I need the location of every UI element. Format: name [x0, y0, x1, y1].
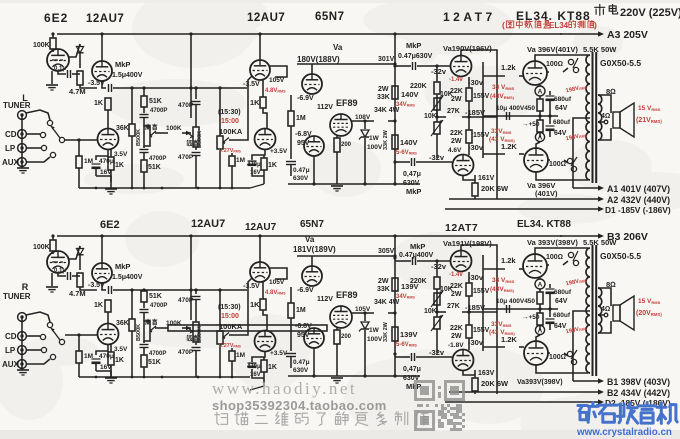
wire R B+ bus [57, 235, 562, 237]
diode L 6E2 grid [76, 47, 83, 53]
svg-text:A: A [538, 89, 543, 96]
svg-text:1K: 1K [250, 300, 260, 309]
ground R 12AU7b cathode [96, 371, 111, 377]
svg-text:8Ω: 8Ω [606, 280, 616, 289]
resistor R EL34a cathode [539, 289, 541, 292]
jack R AUX [18, 360, 27, 369]
svg-text:680uf: 680uf [554, 96, 572, 103]
svg-text:A1 401V (407V): A1 401V (407V) [607, 184, 670, 194]
tube R EF89 pentode [330, 306, 352, 328]
svg-text:1M: 1M [296, 115, 306, 122]
resistor R 100K [52, 236, 54, 240]
label L 198Vrms red upper [565, 84, 588, 94]
svg-text:0.27VRMS: 0.27VRMS [219, 148, 242, 154]
svg-text:12AT7: 12AT7 [445, 222, 478, 234]
wire L lower plate to transformer [536, 172, 588, 180]
svg-text:-30v: -30v [468, 78, 484, 87]
svg-text:EL34: EL34 [549, 21, 569, 30]
svg-text:3.5V: 3.5V [114, 346, 128, 353]
wire L tone input bus [142, 86, 145, 89]
tube L 6SN7 triode b [304, 136, 324, 156]
svg-text:105V: 105V [355, 306, 371, 313]
svg-text:EL34. KT88: EL34. KT88 [517, 219, 571, 230]
svg-text:4.8VRMS: 4.8VRMS [265, 290, 286, 296]
svg-text:-32v: -32v [431, 262, 447, 271]
ammeter R lower [535, 325, 544, 334]
svg-text:-3.5V: -3.5V [243, 81, 260, 88]
svg-text:65N7: 65N7 [315, 11, 345, 23]
wire L cathode bus upper [483, 115, 558, 117]
wire R jack AUX to contact [27, 359, 50, 364]
resistor R 100K tone bridge [155, 327, 168, 329]
wire R grid junction to 1M [78, 335, 80, 351]
svg-text:22K: 22K [450, 130, 463, 137]
svg-text:-30v: -30v [468, 338, 484, 347]
wire L 12AU7b plate [107, 110, 109, 129]
ammeter L upper [539, 85, 541, 86]
jack R CD [18, 332, 27, 341]
svg-text:0.47μ: 0.47μ [293, 167, 310, 174]
svg-text:34VRMS: 34VRMS [396, 102, 415, 108]
svg-text:(21VRMS): (21VRMS) [636, 117, 662, 124]
svg-text:10K: 10K [424, 113, 437, 120]
svg-text:1M: 1M [296, 307, 306, 314]
svg-text:(43VRMS): (43VRMS) [490, 93, 515, 100]
potentiometer L bass B500K [193, 127, 199, 147]
svg-text:301V: 301V [378, 56, 395, 63]
svg-text:12AU7: 12AU7 [245, 222, 277, 233]
resistor R 34K4W [373, 310, 375, 316]
tube L 12AU7-2 triode a [250, 60, 270, 80]
svg-text:1K: 1K [250, 98, 260, 107]
svg-text:-32v: -32v [431, 67, 447, 76]
svg-text:155V: 155V [473, 93, 490, 100]
svg-text:www.haodiy.net: www.haodiy.net [212, 379, 357, 398]
wire L 12AU7-2 plates join [263, 108, 267, 129]
tube R EL34 upper [523, 254, 547, 278]
tube R 12AT7 triode a [451, 251, 472, 272]
wire R ground rail [79, 376, 250, 378]
svg-text:105V: 105V [269, 279, 285, 286]
svg-text:A: A [538, 328, 543, 335]
svg-text:-30v: -30v [468, 143, 484, 152]
svg-text:www.crystalradio.cn: www.crystalradio.cn [576, 427, 672, 438]
capacitor L MkP 1.5u400V coupling [102, 81, 106, 88]
svg-text:630V: 630V [293, 175, 309, 182]
ground rail R mid [250, 386, 264, 390]
watermark scan qr text [215, 412, 228, 425]
svg-text:1K: 1K [268, 162, 277, 169]
svg-text:5-6VRMS: 5-6VRMS [396, 342, 417, 348]
wire R secondary 8 ohm [598, 288, 611, 306]
wire L jack TUNER to contact [26, 110, 50, 120]
output line L 1 [573, 187, 602, 189]
resistor L EL34a cathode [539, 96, 541, 99]
resistor R 1K 12AU7a cathode [105, 300, 111, 312]
tube L 6E2 magic eye [47, 49, 69, 71]
svg-text:33 VRMS: 33 VRMS [492, 84, 515, 91]
wire R to volume pot [218, 288, 221, 291]
wire R 12AU7-2 plate supply [259, 236, 261, 262]
potentiometer R treble B500K [144, 321, 150, 341]
svg-text:155V: 155V [473, 327, 490, 334]
svg-text:33K 2W: 33K 2W [383, 321, 389, 342]
svg-text:LP: LP [5, 346, 16, 355]
svg-text:220V (225V): 220V (225V) [620, 7, 680, 19]
resistor L 51K treble bottom [141, 160, 147, 172]
svg-text:MkP: MkP [115, 262, 130, 271]
wire R 6E2 plate to diode [69, 246, 80, 259]
switch L UL lower [567, 158, 572, 163]
wire R EF89 plate [352, 312, 374, 314]
tube L 12AU7-2 triode b [255, 129, 276, 150]
svg-text:B500K: B500K [136, 129, 142, 146]
wire L to volume pot [218, 86, 221, 89]
svg-text:AUX: AUX [2, 158, 20, 167]
svg-text:51K: 51K [149, 293, 162, 300]
svg-text:470P: 470P [178, 154, 194, 161]
wire L secondary 8 ohm [598, 95, 611, 113]
wire R 12AU7a plate supply [101, 236, 103, 263]
svg-text:155V: 155V [473, 132, 490, 139]
wire R bias feed column [482, 255, 484, 351]
tube R 12AU7-2 triode a [250, 262, 270, 282]
wire L decoupling drop [190, 34, 192, 118]
wire R B+ drop column [394, 236, 396, 376]
switch R UL upper [568, 252, 573, 257]
svg-text:33K: 33K [377, 94, 390, 101]
tube L EL34 lower [524, 148, 548, 172]
tube R EL34 lower [524, 341, 548, 365]
capacitor L 680uF64V upper [549, 91, 551, 95]
wire L input ground bus [21, 115, 23, 168]
selector switch L contacts [47, 120, 52, 125]
resistor L 33K2W lower [392, 135, 398, 149]
svg-text:2W: 2W [451, 96, 462, 103]
svg-text:2W: 2W [451, 138, 462, 145]
svg-text:0,47μ: 0,47μ [403, 171, 421, 178]
resistor L 1K (2) [263, 155, 265, 158]
selector switch L wiper [59, 137, 64, 142]
svg-text:0.47μ630V: 0.47μ630V [398, 53, 433, 60]
svg-text:-1.8V: -1.8V [448, 342, 464, 349]
svg-text:MkP: MkP [115, 60, 130, 69]
wire R decoupling drop [190, 236, 192, 320]
resistor R 51K treble bottom [141, 355, 147, 367]
svg-text:12AU7: 12AU7 [86, 13, 124, 25]
wire L 12AT7 plate rail [461, 50, 497, 199]
svg-text:4700P: 4700P [150, 108, 167, 114]
wire L upper plate to transformer [535, 55, 588, 61]
switch R UL lower [567, 351, 572, 356]
wire L selector to grid [65, 139, 97, 141]
svg-text:R: R [22, 282, 29, 292]
svg-text:5-6VRMS: 5-6VRMS [396, 150, 417, 156]
svg-text:B500K: B500K [197, 326, 203, 343]
resistor L 100K tone bridge [155, 132, 168, 134]
wire R 12AT7 plate rail [461, 245, 497, 394]
transformer R core [592, 245, 594, 376]
svg-text:Va191V(198V): Va191V(198V) [443, 239, 492, 248]
wire L 12AU7a plate supply [101, 34, 103, 61]
capacitor R 470u16V cathode bypass [96, 344, 108, 355]
svg-text:36K: 36K [116, 320, 129, 327]
wire L 12AT7b cathode [463, 175, 475, 180]
resistor R 4.7M [77, 273, 83, 287]
resistor L 100K [52, 34, 54, 38]
capacitor R 470u16V (2) [252, 351, 265, 362]
resistor L 51K treble top [143, 88, 145, 96]
svg-text:0.27VRMS: 0.27VRMS [219, 343, 242, 349]
svg-text:20K 6W: 20K 6W [481, 184, 509, 193]
svg-text:-32v: -32v [429, 348, 445, 357]
svg-text:D1 -185V (-186V): D1 -185V (-186V) [605, 205, 671, 215]
switch L UL upper [568, 59, 573, 64]
svg-text:34K 4W: 34K 4W [374, 299, 400, 306]
svg-text:0.47μ400V: 0.47μ400V [399, 252, 434, 259]
capacitor R 470P bass bottom [195, 342, 197, 345]
tube L 12AT7 triode b [453, 155, 474, 176]
ground rail L mid [250, 184, 264, 188]
wire R jack CD to contact [26, 335, 40, 337]
svg-text:220K: 220K [410, 83, 427, 90]
svg-text:680uf: 680uf [553, 312, 571, 319]
transformer R secondary [598, 288, 602, 333]
svg-text:34VRMS: 34VRMS [396, 294, 415, 300]
svg-text:MkP: MkP [406, 41, 421, 50]
svg-text:1K: 1K [115, 162, 124, 169]
svg-text:6E2: 6E2 [100, 219, 120, 231]
svg-text:100Ω: 100Ω [546, 254, 563, 261]
svg-text:+3.5V: +3.5V [270, 148, 288, 155]
ground L 12AU7b cathode [96, 176, 111, 182]
svg-text:100Ω: 100Ω [549, 354, 566, 361]
speaker L [613, 112, 620, 128]
ground L input jacks [17, 167, 29, 169]
svg-text:15:00: 15:00 [221, 118, 239, 125]
tube L 6SN7 triode a [302, 74, 322, 94]
svg-text:10μ 400V450: 10μ 400V450 [496, 298, 535, 305]
label R B+ arrow [560, 235, 602, 237]
zener L 1W100V [364, 121, 366, 129]
ground rail L driver [288, 183, 420, 185]
output line L 3 [445, 208, 602, 210]
svg-text:140V: 140V [400, 138, 418, 147]
wire L 6SN7 plate line [297, 63, 395, 65]
svg-text:1W: 1W [369, 327, 380, 334]
svg-text:(: ( [502, 20, 505, 30]
capacitor L 4700P treble top [140, 114, 149, 116]
capacitor L 470P bass bottom [195, 147, 197, 150]
svg-text:33VRMS: 33VRMS [491, 321, 512, 328]
svg-text:1.2k: 1.2k [501, 63, 516, 72]
svg-text:1K: 1K [268, 364, 277, 371]
capacitor L 0.1u [58, 71, 66, 74]
svg-text:4.7M: 4.7M [69, 289, 86, 298]
transformer L primary [586, 55, 590, 180]
svg-text:0.47μ: 0.47μ [293, 359, 310, 366]
wire R lower plate to transformer [536, 365, 588, 373]
svg-text:10K: 10K [424, 308, 437, 315]
watermark QR code [414, 380, 465, 431]
label R 198Vrms red upper [565, 277, 588, 287]
svg-text:1K: 1K [94, 302, 103, 309]
capacitor L MkP 0.47u630V upper coupling [395, 65, 411, 67]
tube L 12AT7 triode a [451, 56, 472, 77]
ammeter L lower [535, 132, 544, 141]
resistor L 1M input [76, 156, 82, 168]
svg-text:10μ 400V450: 10μ 400V450 [496, 105, 535, 112]
label R 198Vrms red lower [565, 325, 588, 335]
svg-text:181V(189V): 181V(189V) [293, 245, 336, 254]
wire L EF89 plate [352, 120, 374, 122]
svg-text:MkP: MkP [406, 382, 421, 391]
svg-text:1M: 1M [236, 352, 245, 359]
svg-text:A: A [538, 282, 543, 289]
svg-text:G0X50-5.5: G0X50-5.5 [600, 58, 641, 68]
svg-text:680uf: 680uf [554, 289, 572, 296]
resistor L 1M 6SN7b grid [290, 95, 292, 111]
resistor L 1K 12AU7b cathode [110, 149, 112, 157]
svg-text:470P: 470P [178, 102, 194, 109]
output line R 2 [449, 391, 602, 393]
svg-text:22K: 22K [450, 88, 463, 95]
svg-text:64V: 64V [555, 298, 568, 305]
svg-text:95V: 95V [297, 332, 310, 339]
svg-text:Va 396V(401V): Va 396V(401V) [527, 45, 578, 54]
svg-text:A3 205V: A3 205V [607, 29, 648, 41]
resistor L 20K6W feedback [474, 175, 476, 183]
svg-text:108V: 108V [355, 114, 371, 121]
jack L LP [18, 144, 27, 153]
wire L B+ bus [57, 33, 562, 35]
wire L jack AUX to contact [27, 157, 50, 162]
jack R LP [18, 346, 27, 355]
svg-text:180V(188V): 180V(188V) [297, 55, 340, 64]
wire L volume wiper to grid [229, 76, 252, 140]
capacitor L 4700P treble bottom [143, 146, 145, 148]
resistor L 1K 12AU7-2a cathode [262, 80, 264, 97]
selector switch R contacts [47, 322, 52, 327]
svg-text:3.5V: 3.5V [114, 151, 128, 158]
resistor R 36K [131, 290, 133, 319]
potentiometer L treble B500K [144, 126, 150, 146]
svg-text:2W: 2W [451, 291, 462, 298]
wire R 12AU7b plate [107, 312, 109, 324]
svg-text:(401V): (401V) [535, 189, 558, 198]
svg-text:470μ: 470μ [247, 364, 261, 370]
wire R B+ center tap [573, 311, 590, 381]
svg-text:34K 4W: 34K 4W [374, 107, 400, 114]
speaker R [613, 305, 620, 321]
wire R selector to grid [65, 334, 97, 336]
svg-text:630V: 630V [293, 367, 309, 374]
svg-text:100KA: 100KA [219, 322, 243, 331]
wire L jack LP to contact [26, 147, 41, 149]
svg-text:0.1μ: 0.1μ [54, 66, 66, 72]
svg-text:4.7M: 4.7M [69, 87, 86, 96]
ground rail R driver [288, 375, 420, 377]
potentiometer R bass B500K [193, 322, 199, 342]
tube R 6SN7 triode b [304, 328, 324, 348]
svg-text:1.2K: 1.2K [501, 335, 517, 344]
tube L EL34 upper [523, 61, 547, 85]
svg-text:27K: 27K [447, 108, 460, 115]
svg-text:B3 206V: B3 206V [607, 231, 648, 243]
output line R 3 [445, 401, 602, 403]
svg-text:139V: 139V [400, 330, 418, 339]
svg-text:95V: 95V [297, 140, 310, 147]
svg-text:140V: 140V [401, 90, 419, 99]
svg-text:TUNER: TUNER [3, 292, 31, 301]
svg-text:220K: 220K [410, 278, 427, 285]
capacitor R 4700P treble top [140, 309, 149, 311]
svg-text:2W: 2W [378, 86, 389, 93]
svg-text:100KA: 100KA [219, 127, 243, 136]
resistor R 33K2W lower [392, 327, 398, 341]
wire L ground rail [79, 187, 250, 189]
wire R input ground bus [21, 317, 23, 370]
svg-text:200: 200 [341, 334, 352, 340]
svg-text:100Ω: 100Ω [549, 161, 566, 168]
resistor L 34K4W [373, 118, 375, 124]
svg-text:-6.9V: -6.9V [297, 95, 314, 102]
svg-text:LP: LP [5, 144, 16, 153]
label L 198Vrms red lower [565, 132, 588, 142]
svg-text:100K: 100K [33, 244, 50, 251]
svg-text:8Ω: 8Ω [606, 87, 616, 96]
capacitor R 4700P treble bottom [143, 341, 145, 343]
svg-text:100K: 100K [166, 125, 182, 132]
svg-text:-185V: -185V [465, 303, 485, 312]
label mains 220V [595, 5, 605, 16]
tube R 12AT7 triode b [453, 350, 474, 371]
svg-text:0,47μ: 0,47μ [403, 366, 421, 373]
wire L secondary 4 ohm tap [598, 121, 604, 123]
tube L 12AU7 triode a [92, 61, 112, 81]
svg-text:-6.8V: -6.8V [295, 131, 312, 138]
svg-text:305V: 305V [378, 248, 395, 255]
wire R secondary common [598, 321, 611, 333]
svg-text:1.5μ400V: 1.5μ400V [112, 274, 143, 281]
svg-text:33VRMS: 33VRMS [491, 128, 512, 135]
wire R 12AU7-2 plates join [263, 310, 267, 331]
svg-text:-185V: -185V [465, 108, 485, 117]
svg-text:100K: 100K [166, 320, 182, 327]
svg-text:680uf: 680uf [553, 119, 571, 126]
wire L jack CD to contact [26, 133, 40, 135]
capacitor L 470u16V (2) [252, 149, 265, 160]
svg-text:100V: 100V [367, 336, 383, 343]
svg-text:1K: 1K [94, 100, 103, 107]
transformer L core [592, 52, 594, 183]
wire L bias feed column [482, 62, 484, 158]
svg-text:22K: 22K [450, 283, 463, 290]
svg-text:A2 432V (440V): A2 432V (440V) [607, 195, 670, 205]
svg-text:105V: 105V [269, 77, 285, 84]
capacitor R MkP 0.47u630V upper coupling [395, 260, 411, 262]
svg-text:Va: Va [305, 235, 315, 244]
resistor L lower cathode [539, 116, 541, 120]
svg-text:155V: 155V [473, 288, 490, 295]
svg-text:33K 2W: 33K 2W [383, 129, 389, 150]
ammeter R upper [539, 278, 541, 279]
svg-text:65N7: 65N7 [300, 219, 324, 230]
svg-text:100Ω: 100Ω [546, 61, 563, 68]
zener R 1W100V [364, 313, 366, 321]
svg-text:470P: 470P [178, 349, 194, 356]
svg-text:Va: Va [333, 43, 343, 52]
